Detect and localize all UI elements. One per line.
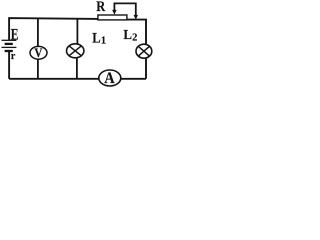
svg-text:L: L xyxy=(92,31,100,47)
voltmeter V xyxy=(30,46,47,59)
svg-text:A: A xyxy=(104,70,115,87)
wire: top-left corner + top wire to rheostat xyxy=(9,18,98,40)
wire: right side (top-right corner down to bottom-right corner) xyxy=(127,20,147,79)
battery plate long 2 xyxy=(2,46,17,48)
wire: left side lower segment (battery to bottom-left corner) xyxy=(8,51,10,79)
ammeter A xyxy=(99,70,121,87)
wire: voltmeter branch upper xyxy=(37,18,39,47)
wire: voltmeter branch lower xyxy=(37,59,39,79)
rheostat R box xyxy=(98,15,127,20)
svg-text:V: V xyxy=(34,46,42,60)
svg-text:2: 2 xyxy=(132,33,137,44)
svg-text:E: E xyxy=(11,26,19,44)
wire: bottom wire xyxy=(9,78,146,80)
svg-text:L: L xyxy=(123,28,132,43)
rheostat slider arm (staple with arrows) xyxy=(112,3,138,19)
battery plate short thick 1 xyxy=(5,43,13,45)
svg-text:r: r xyxy=(11,51,16,62)
battery E,r : plate long top xyxy=(2,39,17,41)
battery plate short thick 2 xyxy=(5,50,13,52)
svg-text:R: R xyxy=(96,0,106,15)
svg-text:1: 1 xyxy=(101,35,106,46)
wire: lamp L2 branch is right side; lamp L2 (circle with cross) xyxy=(136,44,152,58)
wire: lamp L1 branch lower xyxy=(76,58,78,79)
wire: lamp L1 branch upper xyxy=(76,18,78,44)
lamp L1 (circle with cross) xyxy=(67,44,84,58)
